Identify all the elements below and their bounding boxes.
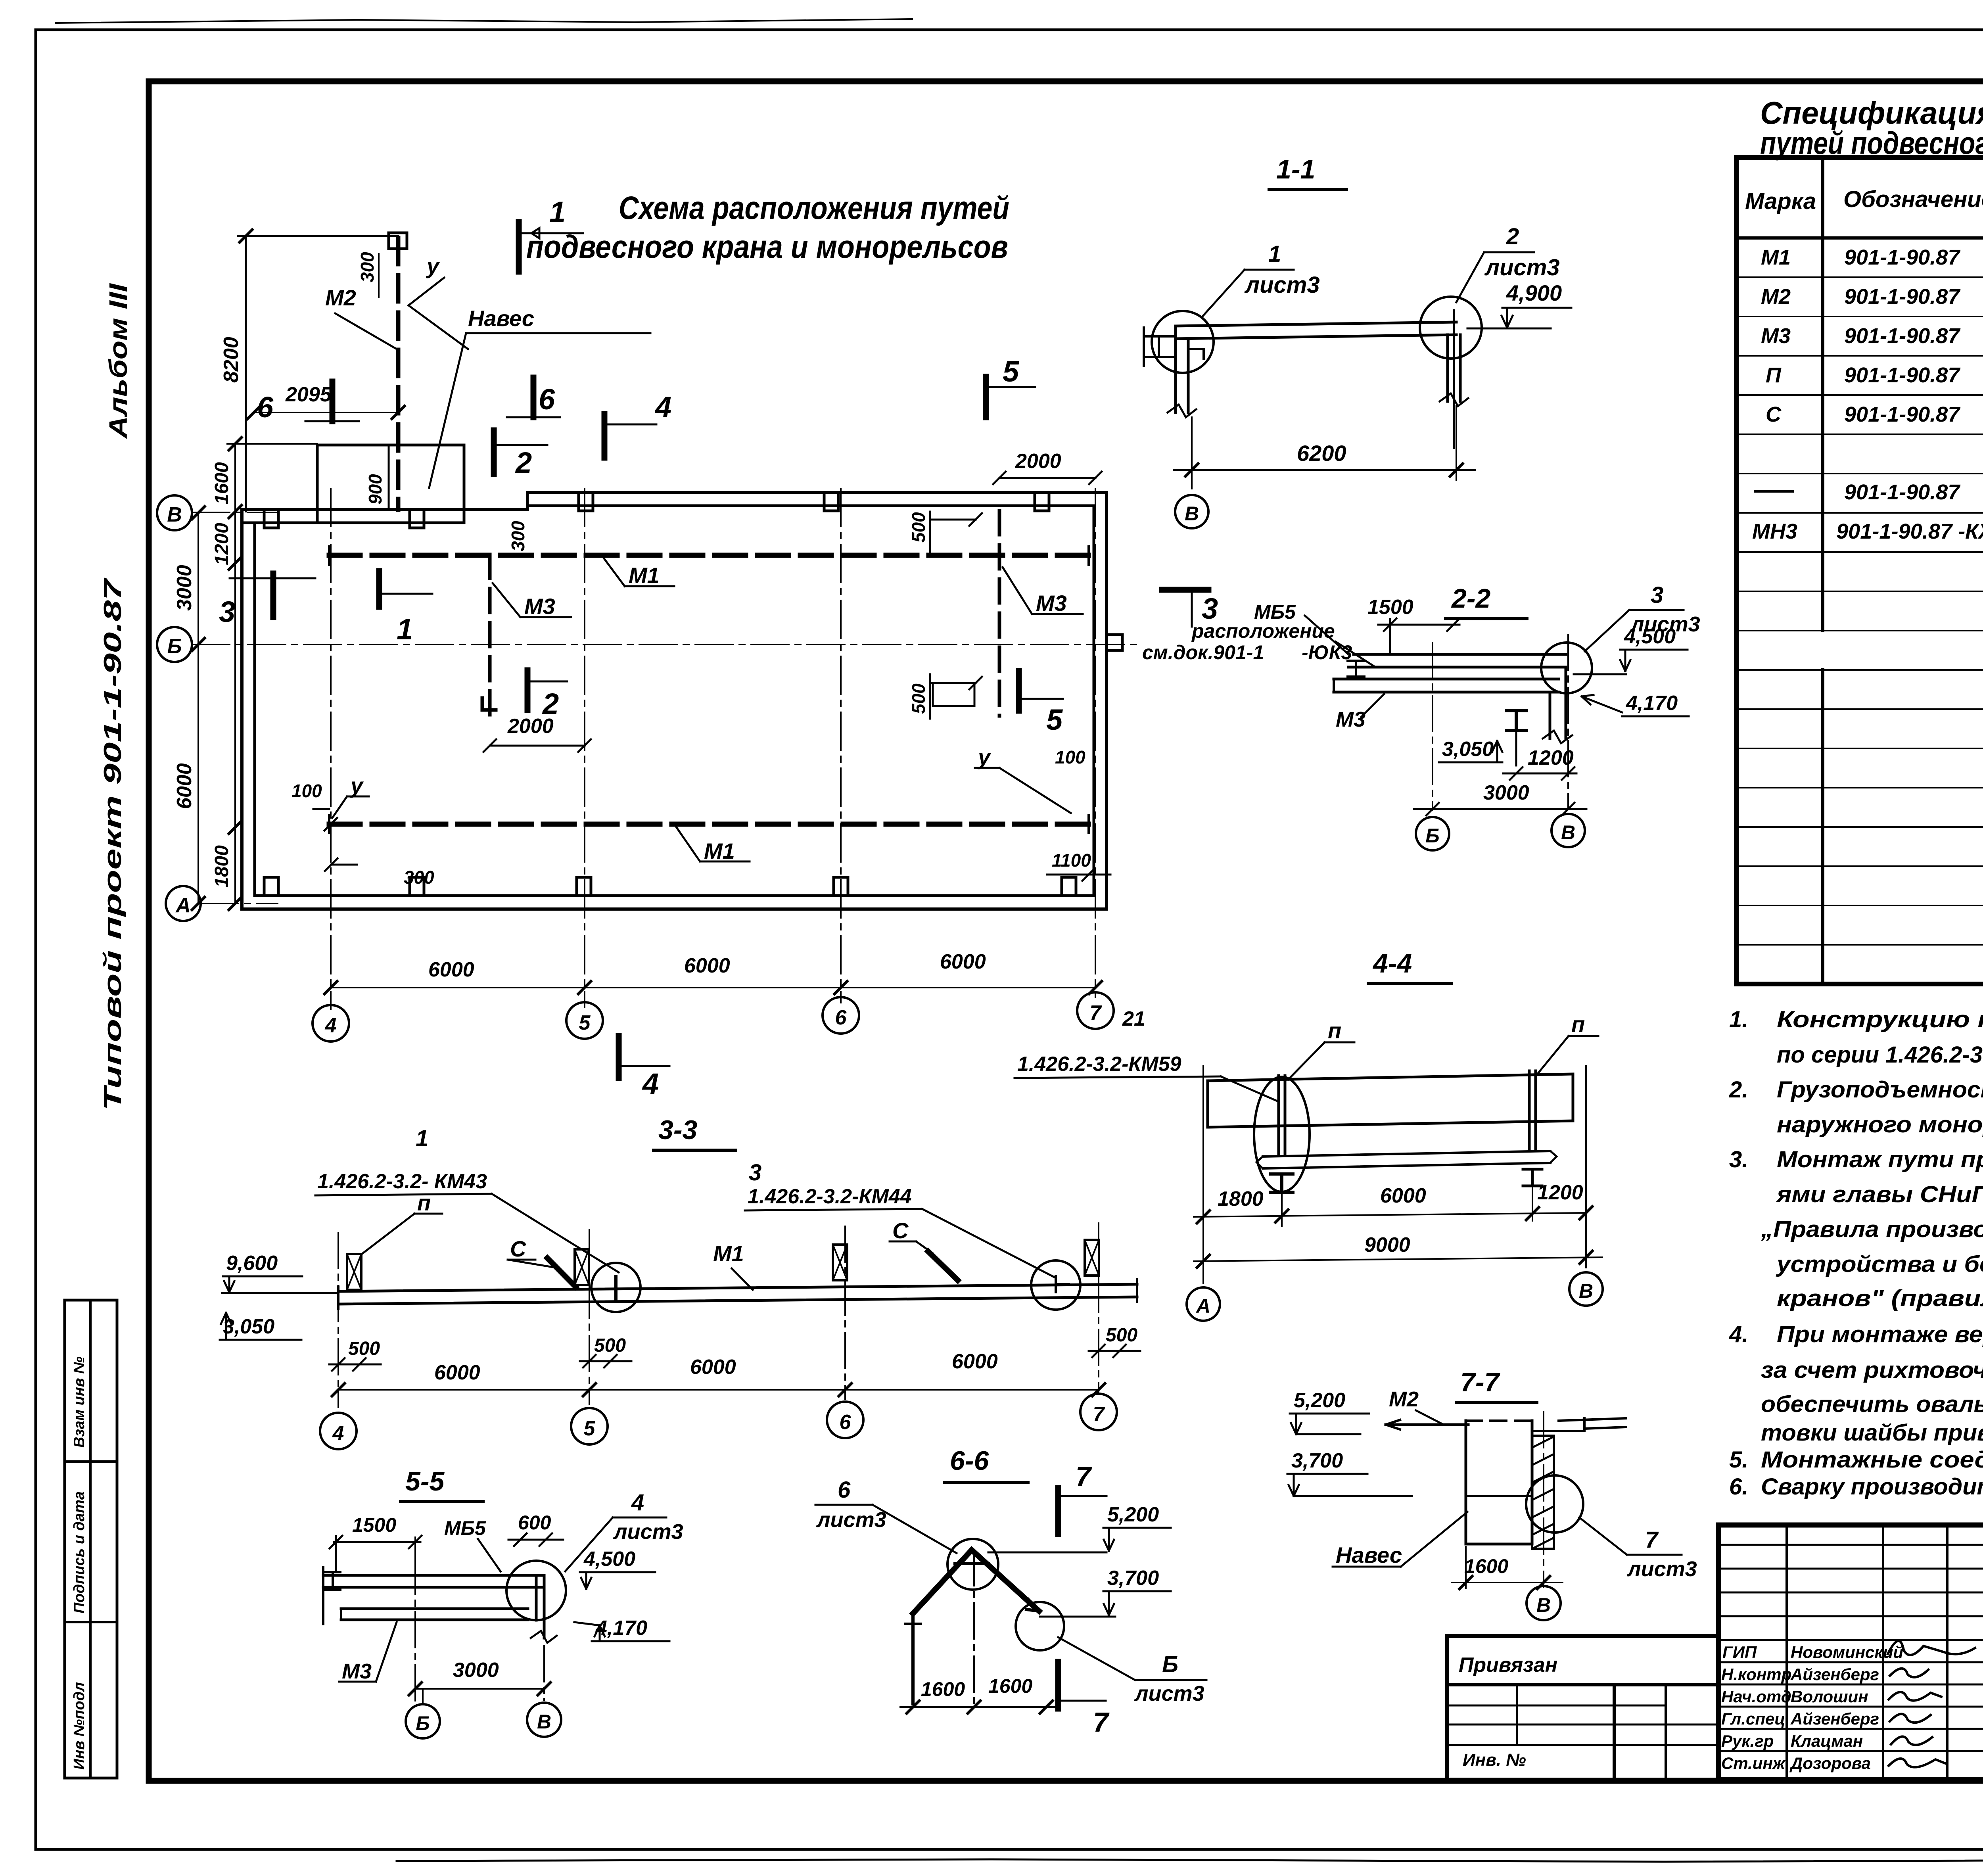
привязан row line c	[1447, 1744, 1718, 1746]
tick sec 5	[229, 897, 242, 910]
signature rows	[1718, 1640, 1983, 1751]
svg-text:Нач.отд: Нач.отд	[1721, 1687, 1791, 1706]
leader М1 upper	[603, 557, 674, 586]
svg-text:Типовой проект 901-1-90.87: Типовой проект 901-1-90.87	[99, 577, 127, 1111]
svg-text:Схема расположения путей: Схема расположения путей	[619, 190, 1009, 226]
rail plate s55 left cap	[340, 1609, 342, 1620]
center dashdot s66	[973, 1550, 975, 1705]
привязан col line 2	[1613, 1685, 1616, 1780]
svg-text:МН3: МН3	[1752, 520, 1797, 543]
svg-text:М2: М2	[1761, 285, 1791, 309]
svg-text:3000: 3000	[173, 565, 196, 611]
wall right inner	[1093, 506, 1095, 896]
svg-text:7: 7	[1093, 1707, 1110, 1738]
svg-text:обеспечить овальными отверст: обеспечить овальными отверстиями. После …	[1761, 1391, 1983, 1417]
svg-text:6: 6	[257, 391, 274, 424]
svg-text:лист3: лист3	[613, 1520, 683, 1544]
axis circle 7 s33	[1080, 1394, 1117, 1430]
svg-text:М1: М1	[704, 838, 735, 863]
left rail bracket web	[1158, 336, 1160, 357]
svg-text:С: С	[892, 1218, 909, 1243]
level 4,900 arrow	[1502, 308, 1513, 328]
leader 2 underline	[1484, 251, 1534, 253]
beam left plate cap	[1333, 679, 1335, 692]
dim 1600 ext s77	[1465, 1547, 1467, 1588]
G_S11	[1144, 154, 1571, 528]
привязан header line	[1447, 1683, 1718, 1686]
svg-text:Волошин: Волошин	[1791, 1687, 1868, 1706]
level 3,700 s66 underline	[1103, 1590, 1171, 1592]
ticks 100 left	[313, 809, 337, 831]
ext hanger left s44	[1281, 1194, 1283, 1226]
beam plate 2	[1348, 666, 1566, 669]
svg-text:М1: М1	[1761, 246, 1791, 269]
svg-text:Айзенберг: Айзенберг	[1790, 1665, 1879, 1684]
svg-text:6000: 6000	[690, 1356, 736, 1379]
detail circle s77	[1526, 1475, 1583, 1533]
leader 3 km44 line	[922, 1209, 1056, 1278]
svg-text:1500: 1500	[352, 1514, 396, 1536]
dim s33 tick 4	[332, 1383, 345, 1396]
section 1-1 title underline	[1269, 188, 1346, 191]
svg-text:6000: 6000	[428, 958, 474, 981]
axis circle В s22	[1551, 814, 1585, 847]
axis Б dashdot s22	[1432, 643, 1433, 810]
leader С s33 right	[890, 1241, 933, 1253]
axis circle 6	[823, 997, 859, 1034]
beam rect s44 top	[1208, 1074, 1573, 1081]
section marker 2 lower bar	[525, 670, 531, 710]
axis 6 dashdot s33	[844, 1226, 846, 1399]
level 4,500 s22 underline	[1620, 649, 1688, 651]
I-beam symbol mid web	[1515, 711, 1518, 731]
hanger 1 rect	[347, 1254, 361, 1290]
dim 1600 s77 tick b	[1537, 1576, 1550, 1589]
leader М2 s77	[1416, 1410, 1444, 1425]
svg-text:500: 500	[908, 512, 929, 543]
привязан col line 3	[1665, 1685, 1667, 1780]
roof edge line 3 s77	[1584, 1427, 1626, 1429]
svg-text:1-1: 1-1	[1276, 154, 1315, 184]
leader МБ5	[1305, 616, 1348, 654]
left col line 2	[1882, 1525, 1884, 1780]
svg-text:1500: 1500	[1367, 596, 1413, 619]
svg-text:подвесного крана и монорельс: подвесного крана и монорельсов	[526, 229, 1008, 265]
section marker 4 bottom leg	[619, 1065, 669, 1067]
bottom dim tick 6	[834, 981, 847, 994]
привязан row line a	[1447, 1705, 1666, 1707]
svg-text:В: В	[537, 1711, 551, 1733]
svg-text:1: 1	[549, 196, 566, 228]
level 4,500 s55 arrow	[581, 1572, 591, 1589]
column bottom row 1	[264, 877, 278, 896]
tick В	[192, 506, 205, 519]
dim 3000 tick left	[409, 1682, 422, 1695]
tick sec 3	[229, 557, 242, 570]
svg-text:В: В	[167, 503, 182, 526]
svg-text:ГИП: ГИП	[1722, 1643, 1757, 1661]
dim 3000 s22 line	[1414, 803, 1586, 815]
section marker 5 lower bar	[1016, 671, 1022, 711]
level 5,200 s77 underline	[1290, 1413, 1369, 1415]
section marker 3 left leg	[230, 577, 315, 579]
svg-text:4-4: 4-4	[1372, 948, 1412, 978]
svg-text:500: 500	[1106, 1325, 1137, 1346]
column bottom row 4	[834, 877, 848, 896]
hatch lines s77	[1532, 1437, 1554, 1549]
tick 8200 top	[240, 230, 252, 242]
right column inner	[1459, 335, 1462, 401]
upper М1 left end tick	[328, 547, 330, 565]
svg-text:2: 2	[542, 687, 559, 720]
section 2-2 title underline	[1446, 617, 1527, 620]
peak ref line	[988, 1552, 1107, 1554]
upper detail circle s66	[947, 1539, 998, 1590]
svg-text:1600: 1600	[211, 462, 232, 504]
level 5,200 s66 underline	[1103, 1527, 1171, 1529]
axis В stem	[192, 512, 278, 513]
axis circle 4 s33	[320, 1413, 357, 1449]
rail plate s44 left cap	[1256, 1157, 1263, 1168]
column rect s77 right	[1531, 1421, 1534, 1544]
svg-text:3000: 3000	[453, 1659, 499, 1682]
svg-text:„Правила производства и прие: „Правила производства и приемки работ" и…	[1761, 1216, 1983, 1242]
bottom dim line	[331, 987, 1095, 988]
wall top-left segment outer	[242, 508, 527, 511]
svg-text:2000: 2000	[1015, 450, 1061, 473]
svg-text:В: В	[1579, 1280, 1593, 1302]
G_S22	[1142, 582, 1700, 850]
svg-text:С: С	[1766, 403, 1782, 426]
dim s33 tick 5	[583, 1383, 596, 1396]
section marker 1 mid bar	[376, 571, 382, 607]
svg-text:за счет рихтовочного зазора: за счет рихтовочного зазора; горизонталь…	[1761, 1357, 1983, 1383]
triangle left leg	[913, 1550, 972, 1613]
svg-text:5-5: 5-5	[405, 1466, 445, 1496]
svg-text:2-2: 2-2	[1451, 583, 1490, 614]
svg-text:2: 2	[1506, 224, 1519, 249]
axis circle В s55	[527, 1703, 561, 1737]
section marker 6 left vertical	[330, 382, 336, 421]
svg-text:1.426.2-3.2- КМ43: 1.426.2-3.2- КМ43	[317, 1170, 487, 1193]
section marker 3 right bar	[1162, 587, 1208, 593]
svg-text:600: 600	[518, 1512, 551, 1534]
level 9,600 underline	[223, 1276, 302, 1278]
canopy rectangle	[317, 445, 464, 523]
section marker 6 left base	[305, 420, 359, 422]
svg-text:Рук.гр: Рук.гр	[1721, 1732, 1774, 1750]
column rect s77 left	[1465, 1421, 1467, 1544]
beam s55 left I web	[332, 1572, 334, 1590]
svg-text:у: у	[977, 744, 991, 769]
tick sec 4	[229, 821, 242, 834]
dim 300 top line	[378, 254, 380, 297]
G_S55	[323, 1466, 683, 1738]
svg-text:П: П	[1766, 363, 1782, 387]
section 6-6 title underline	[945, 1481, 1028, 1484]
right angle vertical 1	[1549, 692, 1551, 739]
привязан table outer	[1447, 1636, 1718, 1780]
svg-text:Взам инв №: Взам инв №	[71, 1356, 88, 1448]
title block outer border	[1718, 1525, 1983, 1780]
tick sec 2	[229, 505, 242, 518]
leader 4 s55 underline	[613, 1517, 666, 1519]
tick 2095 right	[392, 406, 405, 419]
signature squiggle 4	[1890, 1714, 1931, 1723]
column inner line s77	[1466, 1495, 1532, 1497]
leader 1 underline	[1245, 269, 1294, 271]
right column outer	[1446, 335, 1449, 401]
marker 7 top bar	[1055, 1488, 1061, 1534]
rail I-symbol left flange bottom	[1348, 675, 1364, 678]
dim 500 s33 c line	[1089, 1345, 1140, 1357]
svg-text:Альбом III: Альбом III	[104, 283, 132, 439]
dim 600 s55 line	[508, 1533, 563, 1546]
beam plate 1	[1354, 653, 1566, 656]
axis 4 dashdot s33	[338, 1233, 339, 1407]
svg-text:901-1-90.87: 901-1-90.87	[1844, 246, 1961, 269]
dim line s33 main	[338, 1389, 1099, 1391]
svg-text:901-1-90.87: 901-1-90.87	[1844, 403, 1961, 426]
canopy inner divider	[388, 445, 390, 510]
svg-text:6: 6	[539, 383, 555, 416]
monorail М2 line s77	[1386, 1423, 1468, 1426]
dim line 2 s44	[1194, 1257, 1602, 1261]
hanger 2 cross	[575, 1249, 589, 1285]
svg-text:6000: 6000	[434, 1361, 480, 1384]
rail plate s55 bottom	[341, 1619, 528, 1621]
sidebar label boxes	[65, 1300, 117, 1778]
svg-text:6000: 6000	[940, 950, 986, 973]
svg-text:3-3: 3-3	[658, 1115, 697, 1145]
dim 1600 s77 tick a	[1459, 1576, 1472, 1589]
svg-text:Б: Б	[416, 1712, 430, 1734]
marker М3 angle lower	[482, 698, 496, 710]
section marker 1 top bar	[516, 222, 522, 272]
left rail bracket top	[1144, 335, 1175, 338]
svg-text:у: у	[426, 253, 440, 278]
detail circle right	[1420, 297, 1482, 359]
svg-text:6: 6	[840, 1411, 852, 1434]
detail circle s33 right tick	[1056, 1276, 1069, 1292]
hatch strip s77 outline	[1532, 1436, 1554, 1549]
svg-text:1200: 1200	[1537, 1181, 1583, 1204]
dim1 tick c	[1526, 1207, 1539, 1220]
dim 3000 tick right	[538, 1682, 550, 1695]
leader Б s66 line	[1058, 1637, 1135, 1680]
brace С left	[547, 1258, 576, 1287]
axis 6 dash-dot vertical	[840, 489, 842, 1003]
section 4-4 title underline	[1368, 982, 1452, 985]
svg-text:Гл.спец: Гл.спец	[1721, 1709, 1785, 1728]
svg-text:5: 5	[584, 1417, 596, 1440]
svg-text:Привязан: Привязан	[1459, 1653, 1557, 1677]
G_TITLEBLOCK	[1447, 1525, 1983, 1780]
svg-text:Инв №подл: Инв №подл	[71, 1682, 88, 1770]
svg-text:901-1-90.87: 901-1-90.87	[1844, 363, 1961, 387]
leader 6 underline	[815, 1504, 873, 1506]
detail oval s44	[1254, 1077, 1310, 1192]
svg-text:1: 1	[397, 613, 413, 646]
svg-text:2095: 2095	[285, 383, 332, 406]
level 3,050 s33 arrow	[221, 1313, 231, 1340]
section marker 6 right vertical	[531, 378, 537, 417]
svg-text:п: п	[1328, 1018, 1341, 1043]
G_S44	[1015, 948, 1603, 1321]
dim2 tick a	[1197, 1255, 1210, 1268]
svg-text:100: 100	[1055, 747, 1085, 767]
signature squiggle 1	[1888, 1641, 1975, 1655]
beam rect s44 left	[1206, 1081, 1209, 1127]
level 9,600 arrow	[224, 1276, 234, 1292]
crane track M1 upper dashed	[329, 553, 1089, 558]
dim s66 tick b	[968, 1701, 980, 1713]
leader М3 left	[493, 583, 571, 617]
svg-text:4: 4	[654, 391, 671, 424]
svg-text:Инв. №: Инв. №	[1463, 1750, 1526, 1770]
wall left inner	[253, 523, 256, 896]
section marker 4 top leg	[604, 424, 656, 426]
leader п s44 left	[1288, 1042, 1354, 1080]
tick 2095 left	[247, 406, 260, 419]
svg-text:4: 4	[332, 1422, 344, 1445]
triangle right leg	[972, 1550, 1039, 1611]
left col line 1	[1785, 1525, 1788, 1780]
svg-text:1100: 1100	[1052, 850, 1091, 871]
spec table row lines	[1736, 277, 1983, 945]
section 5-5 title underline	[401, 1500, 483, 1503]
svg-text:901-1-90.87 -КЖИ-МН3: 901-1-90.87 -КЖИ-МН3	[1836, 520, 1983, 543]
level 4,170 s55 underline	[592, 1640, 669, 1642]
beam right cap s33	[1136, 1279, 1138, 1302]
dim 6200 tick right	[1450, 464, 1463, 476]
leader 1 line	[1202, 270, 1245, 317]
svg-text:4,500: 4,500	[1624, 625, 1676, 648]
svg-text:Сварку производить электрода: Сварку производить электродами Э42 Гост …	[1761, 1474, 1983, 1500]
svg-text:МБ5: МБ5	[444, 1517, 486, 1539]
leader МБ5 s55	[478, 1539, 501, 1571]
svg-text:1: 1	[416, 1126, 428, 1151]
wall right outer	[1105, 493, 1108, 909]
rail plate s44 top	[1263, 1151, 1550, 1157]
svg-text:С: С	[510, 1236, 527, 1261]
column top row 4	[824, 493, 838, 511]
left leg lower vertical	[911, 1613, 915, 1704]
axis 4 dash-dot vertical	[330, 489, 332, 1009]
svg-text:4: 4	[642, 1067, 659, 1100]
svg-text:3: 3	[219, 595, 235, 628]
bottom dim tick 5	[578, 981, 591, 994]
section marker 2 top leg	[494, 444, 547, 446]
axis В dashdot s55	[543, 1646, 545, 1700]
svg-text:1.426.2-3.2-КМ59: 1.426.2-3.2-КМ59	[1017, 1053, 1181, 1076]
svg-text:расположение: расположение	[1191, 620, 1335, 642]
left dim line axes	[198, 513, 199, 903]
hanger 3 cross	[833, 1245, 847, 1280]
G_S77	[1287, 1367, 1697, 1620]
svg-text:901-1-90.87: 901-1-90.87	[1844, 480, 1961, 504]
svg-text:901-1-90.87: 901-1-90.87	[1844, 324, 1961, 348]
dim 1500 ext left	[1389, 619, 1391, 654]
beam s55 left I flange bottom	[325, 1588, 340, 1591]
svg-text:300: 300	[357, 252, 378, 282]
beam s55 left end plate	[322, 1567, 324, 1624]
axis circle В s77	[1527, 1586, 1561, 1620]
dim 1200 s22 line	[1503, 767, 1576, 780]
svg-text:3: 3	[749, 1160, 761, 1185]
leader ЮК3	[1336, 642, 1374, 666]
left col line 3	[1946, 1525, 1948, 1780]
dim2 tick b	[1580, 1251, 1592, 1264]
roof edge line 1 s77	[1532, 1430, 1584, 1432]
monorail M2 end plate square	[389, 233, 407, 249]
svg-text:5: 5	[579, 1011, 591, 1034]
svg-text:М3: М3	[1761, 324, 1791, 348]
axis circle 6 s33	[827, 1402, 863, 1438]
axis Б dashdot s55	[414, 1559, 416, 1701]
svg-text:М1: М1	[629, 563, 660, 588]
right break s55	[531, 1631, 557, 1643]
svg-text:лист3: лист3	[1134, 1682, 1204, 1705]
sidebar box divider vertical	[89, 1300, 92, 1778]
axis circle А	[166, 886, 201, 921]
dim 6200 line	[1174, 469, 1475, 471]
leader Б s66 underline	[1135, 1679, 1206, 1681]
hanger 4 cross	[1085, 1240, 1099, 1276]
beam top chord s33	[338, 1284, 1137, 1291]
left dim line secondary	[234, 444, 236, 903]
right column break mark	[1440, 393, 1468, 406]
leader 3 km44 underline	[745, 1209, 922, 1210]
svg-text:Грузоподъемность подвесного: Грузоподъемность подвесного крана - 3,2 …	[1777, 1077, 1983, 1103]
svg-text:Дозорова: Дозорова	[1789, 1754, 1871, 1772]
hanger left rod 2	[1284, 1076, 1287, 1155]
leader М3 right	[1003, 567, 1083, 614]
leader Навес underline	[466, 332, 650, 334]
G_PLAN	[157, 196, 1218, 1100]
axis circle А s44	[1187, 1287, 1220, 1321]
center dashdot s77	[1543, 1412, 1544, 1587]
beam s55 line2	[323, 1586, 543, 1589]
leader Навес s77	[1333, 1512, 1467, 1567]
dim line 2095	[254, 412, 398, 413]
I-beam stem	[1515, 731, 1517, 765]
svg-text:Новоминский: Новоминский	[1791, 1643, 1903, 1661]
hanger 4 rect	[1085, 1240, 1099, 1276]
svg-text:Клацман: Клацман	[1791, 1732, 1863, 1750]
svg-text:2: 2	[515, 446, 532, 479]
svg-text:3,050: 3,050	[223, 1315, 274, 1338]
leader 2 line	[1456, 252, 1484, 302]
dim 1500 ext lines	[336, 1536, 415, 1573]
svg-text:М2: М2	[1389, 1387, 1419, 1411]
detail circle s33 left	[591, 1263, 641, 1312]
svg-text:6000: 6000	[684, 954, 730, 977]
svg-text:у: у	[349, 773, 364, 798]
level 4,170 s22 underline	[1622, 715, 1689, 717]
beam bottom chord s33	[338, 1297, 1137, 1304]
rail plate s44 right cap	[1550, 1151, 1557, 1163]
leader М1 lower	[676, 827, 750, 861]
level 3,700 s66 arrow	[1104, 1591, 1114, 1615]
column top row 3	[579, 493, 593, 511]
leader С s33 left	[508, 1260, 553, 1267]
triangle right arrowhead	[1026, 1599, 1039, 1611]
dim 2000 mid line	[483, 739, 591, 752]
axis circle 7	[1077, 992, 1114, 1029]
svg-text:лист3: лист3	[816, 1508, 886, 1532]
rail plate s44 bottom	[1263, 1163, 1550, 1168]
